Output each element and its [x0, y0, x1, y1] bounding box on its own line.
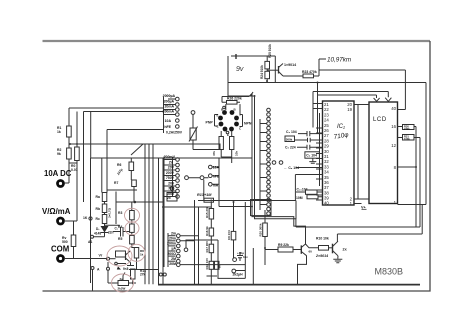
svg-text:20mA: 20mA — [164, 105, 174, 109]
svg-text:20m: 20m — [169, 237, 176, 241]
svg-text:R7: R7 — [114, 181, 118, 185]
svg-text:19: 19 — [347, 107, 352, 112]
svg-text:750V: 750V — [166, 176, 175, 180]
svg-text:V+: V+ — [361, 205, 367, 209]
svg-text:4148: 4148 — [94, 232, 101, 236]
svg-text:V/Ω/mA: V/Ω/mA — [42, 207, 71, 216]
svg-text:Vг: Vг — [99, 254, 103, 258]
svg-text:200mA: 200mA — [163, 110, 175, 114]
svg-text:10A: 10A — [165, 119, 172, 123]
svg-text:Rb: Rb — [96, 207, 101, 211]
svg-text:9v: 9v — [236, 66, 244, 73]
svg-text:R9 22k: R9 22k — [278, 243, 289, 247]
svg-text:0,2A/250V: 0,2A/250V — [166, 131, 183, 135]
svg-text:20V: 20V — [168, 166, 175, 170]
svg-text:E: E — [217, 114, 219, 118]
svg-text:R3: R3 — [118, 211, 122, 215]
svg-text:R20 360k: R20 360k — [259, 223, 263, 236]
svg-text:9×8: 9×8 — [123, 267, 129, 271]
svg-text:µA: µA — [171, 247, 176, 251]
svg-text:NPN: NPN — [244, 122, 252, 126]
svg-text:LCD: LCD — [373, 117, 387, 123]
svg-text:C₅ 224: C₅ 224 — [285, 145, 296, 149]
svg-text:12: 12 — [391, 143, 396, 148]
svg-text:R5: R5 — [118, 237, 122, 241]
svg-text:60: 60 — [309, 250, 313, 254]
svg-text:R26 220k: R26 220k — [227, 97, 242, 101]
svg-text:mA: mA — [213, 183, 219, 187]
svg-text:700: 700 — [168, 187, 174, 191]
svg-text:22n: 22n — [108, 230, 114, 234]
svg-text:40: 40 — [324, 201, 329, 206]
svg-text:C₁₀104: C₁₀104 — [297, 188, 308, 192]
svg-text:Ra: Ra — [96, 195, 100, 199]
svg-text:PNP: PNP — [206, 121, 214, 125]
svg-text:R24 910k: R24 910k — [260, 65, 264, 79]
svg-text:W: W — [218, 265, 222, 268]
svg-text:R15 20k: R15 20k — [205, 206, 209, 218]
svg-text:R25 910k: R25 910k — [268, 44, 272, 58]
svg-text:360k: 360k — [286, 138, 293, 142]
svg-text:R17 900: R17 900 — [205, 241, 209, 253]
svg-text:3×0,7Ω: 3×0,7Ω — [108, 207, 112, 218]
svg-text:C9 104: C9 104 — [227, 230, 231, 240]
svg-text:COM: COM — [51, 245, 69, 254]
svg-text:hFE: hFE — [213, 174, 220, 178]
svg-text:hFE: hFE — [164, 125, 171, 129]
svg-text:2µ: 2µ — [120, 277, 124, 281]
svg-text:0.01: 0.01 — [71, 168, 78, 172]
svg-text:10A DC: 10A DC — [44, 169, 72, 178]
svg-text:10A: 10A — [213, 165, 220, 169]
svg-text:40: 40 — [391, 106, 396, 111]
svg-text:R10 10k: R10 10k — [316, 236, 329, 240]
svg-text:20M: 20M — [169, 262, 176, 266]
svg-text:2k2µH: 2k2µH — [233, 273, 244, 277]
svg-text:1K: 1K — [83, 216, 88, 220]
svg-text:R6: R6 — [117, 163, 121, 167]
svg-text:100k: 100k — [404, 137, 410, 141]
svg-text:1k: 1k — [140, 253, 144, 257]
svg-text:M830B: M830B — [375, 267, 404, 277]
svg-text:E: E — [227, 133, 229, 137]
svg-text:R16 9k: R16 9k — [205, 226, 209, 236]
svg-text:2x: 2x — [167, 196, 171, 200]
svg-text:10k: 10k — [235, 151, 239, 156]
svg-text:Rc: Rc — [96, 217, 100, 221]
svg-text:2k2W: 2k2W — [118, 286, 126, 290]
svg-text:2×9014: 2×9014 — [315, 254, 328, 258]
svg-text:C₆ 104: C₆ 104 — [306, 154, 317, 158]
svg-text:R23 470k: R23 470k — [302, 70, 317, 74]
svg-text:270k: 270k — [404, 127, 410, 131]
svg-text:2m: 2m — [171, 232, 176, 236]
svg-text:500: 500 — [62, 240, 68, 244]
svg-text:200Ω: 200Ω — [167, 252, 176, 256]
svg-text:9k: 9k — [57, 152, 61, 156]
svg-text:2000µA: 2000µA — [163, 94, 176, 98]
svg-text:200mV: 200mV — [164, 155, 176, 159]
svg-text:27k: 27k — [140, 273, 146, 277]
svg-text:A1: A1 — [88, 240, 92, 244]
svg-text:IC₁: IC₁ — [337, 124, 345, 130]
svg-text:200V: 200V — [166, 171, 175, 175]
svg-text:47k: 47k — [212, 151, 216, 156]
svg-text:R13+1M: R13+1M — [197, 193, 212, 197]
svg-text:200: 200 — [168, 182, 174, 186]
svg-text:2M: 2M — [171, 257, 176, 261]
svg-text:1k: 1k — [57, 130, 61, 134]
svg-text:200m: 200m — [167, 242, 176, 246]
svg-text:10M: 10M — [296, 196, 303, 200]
svg-text:10,97km: 10,97km — [327, 57, 351, 64]
svg-text:16v: 16v — [243, 255, 248, 259]
svg-text:← C₈ 104: ← C₈ 104 — [284, 166, 299, 170]
svg-text:C₄ 104: C₄ 104 — [286, 130, 297, 134]
svg-text:R18 100: R18 100 — [205, 258, 209, 270]
svg-text:16: 16 — [391, 124, 396, 129]
svg-text:1×9014: 1×9014 — [284, 63, 296, 67]
svg-text:2V: 2V — [169, 161, 174, 165]
svg-text:200µA: 200µA — [164, 100, 175, 104]
svg-text:R4: R4 — [118, 225, 122, 229]
